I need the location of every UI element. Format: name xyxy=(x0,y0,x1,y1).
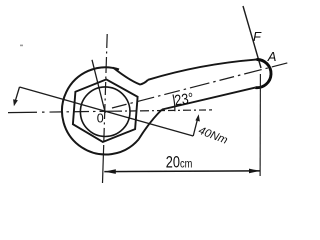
paper background xyxy=(0,0,292,189)
vertical extension line below O xyxy=(103,145,104,183)
F line of action through A xyxy=(243,6,261,68)
wrench neck lower edge xyxy=(139,110,163,140)
svg-text:F: F xyxy=(253,29,262,44)
svg-text:0: 0 xyxy=(97,112,104,126)
couple arm line through O xyxy=(20,87,194,136)
stray scan speck xyxy=(20,45,23,47)
svg-text:20cm: 20cm xyxy=(166,154,193,172)
horizontal centerline through O (dash-dot) xyxy=(8,111,114,112)
svg-text:23°: 23° xyxy=(173,89,194,109)
bolt hexagon head xyxy=(73,79,138,142)
handle axis centerline O to beyond A (dash-dot) xyxy=(112,63,289,109)
wrench outer head circle xyxy=(62,67,139,154)
dimension arrow left xyxy=(104,169,116,174)
horizontal centerline right part (fine dashes) xyxy=(114,110,212,111)
couple force arrow right / 40Nm arrow (up) xyxy=(193,117,198,137)
dimension arrow right xyxy=(249,169,260,174)
vertical centerline through O (dash-dot) xyxy=(104,34,108,145)
handle upper edge xyxy=(148,60,257,80)
extension line below A xyxy=(259,74,261,176)
F direction line translated to O xyxy=(92,60,105,113)
23 degree angle arc xyxy=(173,95,175,112)
couple force arrow left (down) xyxy=(15,87,20,103)
handle lower edge xyxy=(162,88,255,110)
bolt inner circle xyxy=(80,87,130,137)
handle end cap at A (bold) xyxy=(255,59,271,87)
dimension line 20cm xyxy=(104,170,260,173)
svg-text:A: A xyxy=(267,49,277,64)
wrench neck upper edge xyxy=(113,68,148,85)
